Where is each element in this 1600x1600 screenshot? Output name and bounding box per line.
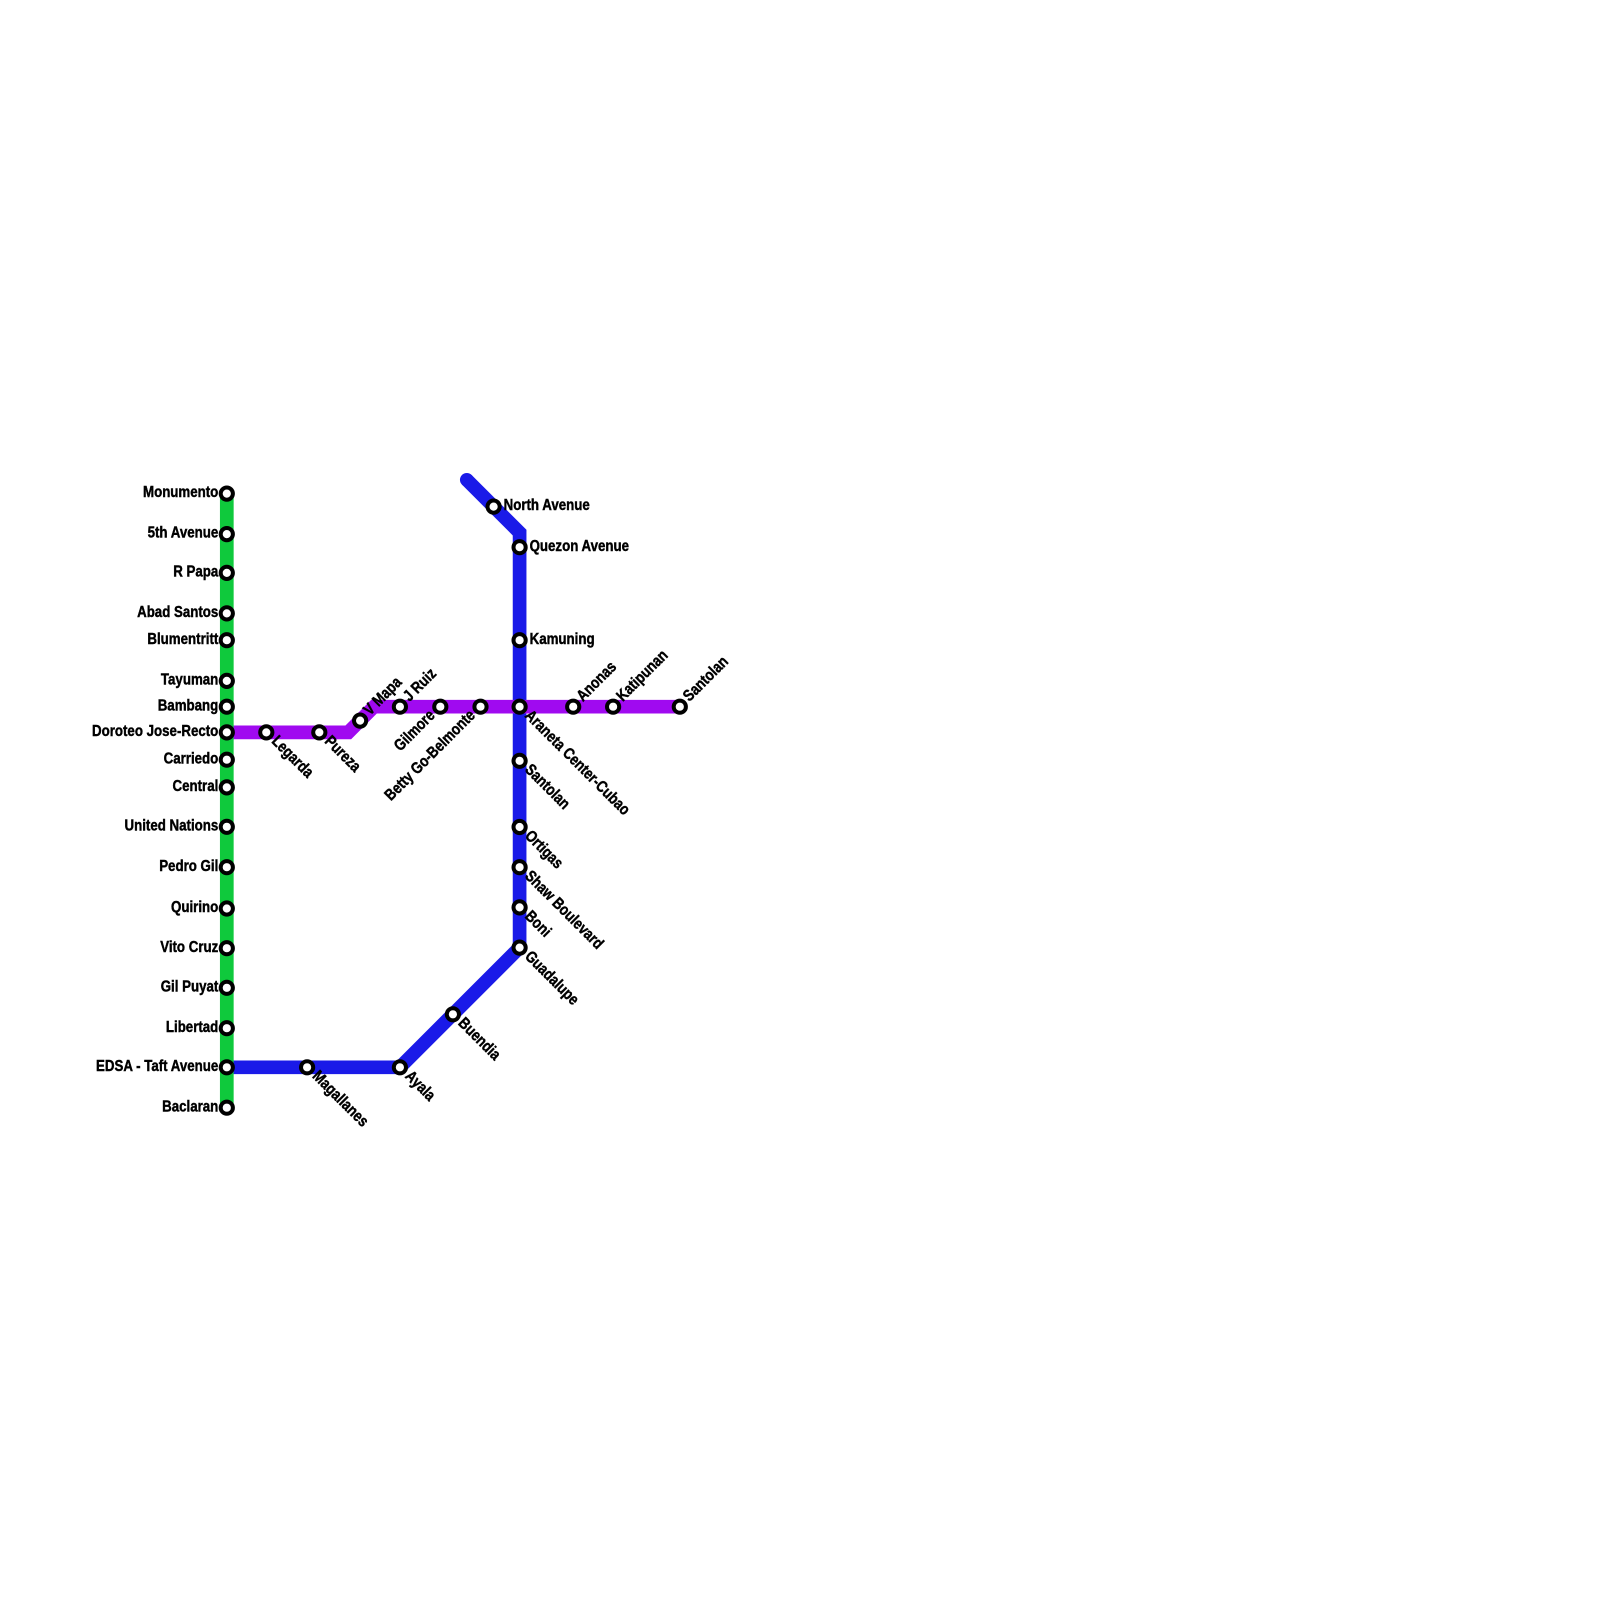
station Carriedo [221,754,233,766]
station Gilmore [434,701,446,713]
svg-text:Gil Puyat: Gil Puyat [161,978,219,995]
svg-text:5th Avenue: 5th Avenue [148,525,219,542]
station 5th Avenue [221,528,233,540]
svg-text:Vito Cruz: Vito Cruz [160,939,218,956]
svg-text:Pedro Gil: Pedro Gil [159,858,218,875]
station Blumentritt [221,634,233,646]
MRT Line 3 (blue) line start round cap [460,473,474,487]
svg-text:EDSA - Taft Avenue: EDSA - Taft Avenue [96,1058,218,1075]
station Anonas [567,701,579,713]
station Magallanes [301,1061,313,1073]
station Gil Puyat [221,982,233,994]
station Pureza [313,726,325,738]
station Guadalupe [514,942,526,954]
station Shaw Boulevard [514,861,526,873]
station Tayuman [221,675,233,687]
station J Ruiz [394,701,406,713]
svg-text:Libertad: Libertad [166,1019,218,1036]
station Katipunan [607,701,619,713]
station Central [221,781,233,793]
station United Nations [221,821,233,833]
LRT Line 2 (purple) wire [227,707,680,733]
station Quezon Avenue [514,541,526,553]
svg-text:United Nations: United Nations [125,817,219,834]
station Pedro Gil [221,861,233,873]
station Vito Cruz [221,942,233,954]
station Baclaran [221,1102,233,1114]
station Libertad [221,1022,233,1034]
svg-text:R Papa: R Papa [173,564,218,581]
station Kamuning [514,634,526,646]
station Boni [514,901,526,913]
station Legarda [260,726,272,738]
MRT Line 3 (blue) wire [227,480,520,1068]
svg-text:Blumentritt: Blumentritt [147,631,218,648]
station North Avenue [488,501,500,513]
svg-text:Tayuman: Tayuman [161,672,218,689]
station Santolan [514,755,526,767]
station Ayala [394,1061,406,1073]
station R Papa [221,567,233,579]
svg-text:Monumento: Monumento [143,484,218,501]
station Santolan [674,701,686,713]
svg-text:Doroteo Jose-Recto: Doroteo Jose-Recto [92,723,218,740]
svg-text:Quirino: Quirino [171,899,218,916]
svg-text:Bambang: Bambang [158,697,219,714]
station Buendia [447,1008,459,1020]
station Ortigas [514,821,526,833]
svg-text:Abad Santos: Abad Santos [137,604,218,621]
station Doroteo Jose-Recto [221,726,233,738]
station Betty Go-Belmonte [474,701,486,713]
station Bambang [221,701,233,713]
svg-text:Central: Central [173,778,219,795]
LRT Line 1 (green) wire [220,494,234,1108]
station V Mapa [354,715,366,727]
svg-text:Kamuning: Kamuning [530,631,595,648]
svg-text:Quezon Avenue: Quezon Avenue [530,538,629,555]
svg-text:Baclaran: Baclaran [162,1098,218,1115]
svg-text:North Avenue: North Avenue [504,497,590,514]
station Araneta Center-Cubao [514,701,526,713]
station Quirino [221,902,233,914]
station EDSA - Taft Avenue [221,1061,233,1073]
svg-text:Carriedo: Carriedo [164,750,219,767]
station Abad Santos [221,607,233,619]
station Monumento [221,488,233,500]
